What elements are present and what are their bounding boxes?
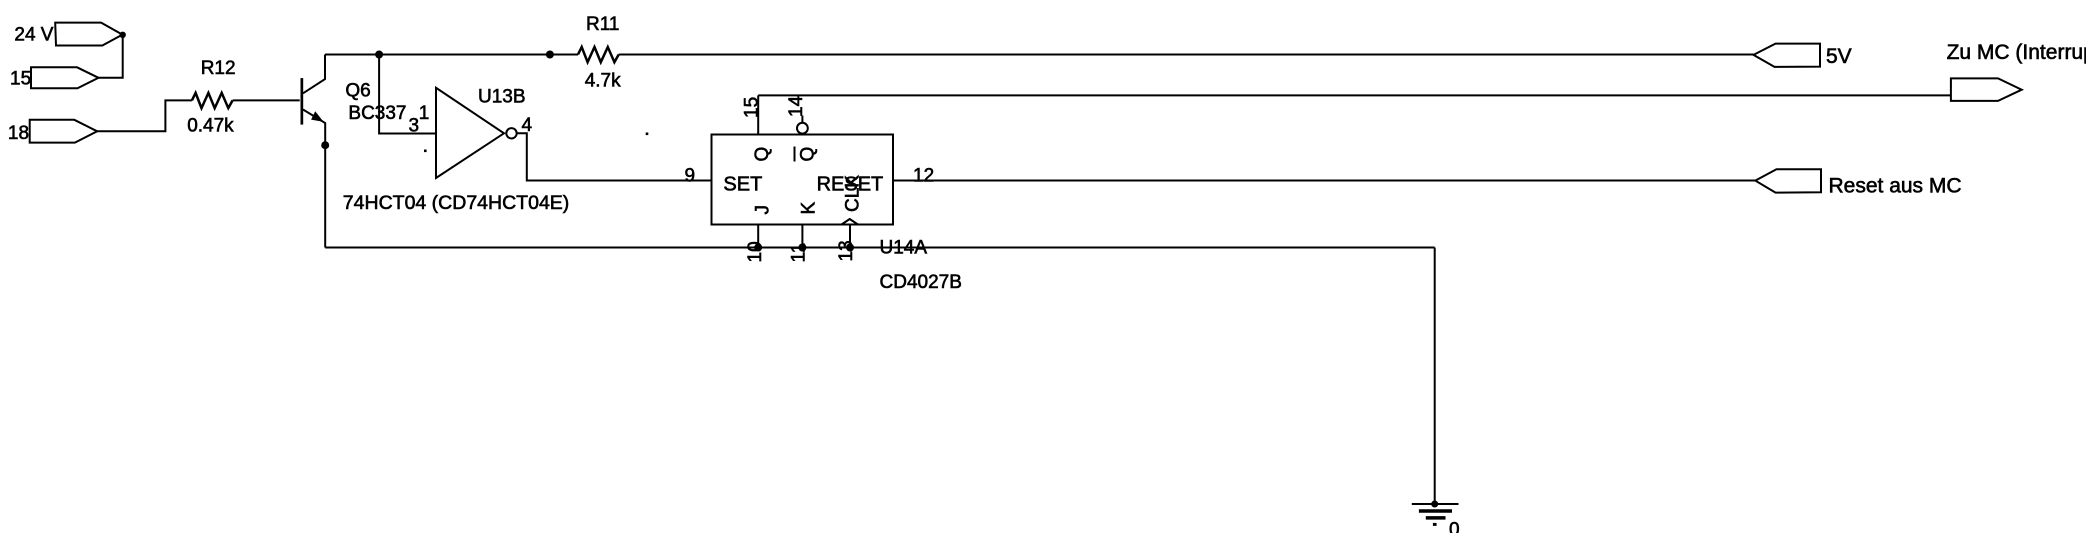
wire top rail collector to R11: [325, 54, 578, 56]
svg-text:74HCT04 (CD74HCT04E): 74HCT04 (CD74HCT04E): [343, 192, 570, 214]
wire 18 to R12: [97, 100, 192, 131]
connector 24V tag: [55, 23, 122, 46]
svg-text:12: 12: [913, 166, 934, 187]
transistor Q6 collector: [303, 55, 325, 94]
Qbar overbar: [794, 147, 796, 162]
pin number 15 rotated: [742, 97, 763, 118]
svg-text:Reset aus MC: Reset aus MC: [1829, 174, 1962, 197]
clock edge triangle: [842, 219, 858, 225]
value BC337: [348, 103, 406, 124]
svg-text:Q: Q: [752, 147, 773, 162]
ground bar 1: [1412, 503, 1459, 505]
label 18: [8, 123, 29, 144]
wire branch down to inverter input: [379, 55, 436, 134]
junction dot ground: [1431, 501, 1438, 508]
pin number 3: [409, 116, 420, 137]
pin 13 wire: [849, 225, 851, 248]
pin number 14 rotated: [786, 95, 807, 117]
svg-text:15: 15: [10, 69, 31, 90]
label R11: [586, 14, 619, 35]
svg-text:R12: R12: [201, 58, 236, 79]
ground dash: [1433, 523, 1437, 526]
pin 14 bubble: [797, 123, 808, 134]
svg-text:24 V: 24 V: [14, 24, 53, 45]
wire bottom rail down to ground: [1434, 248, 1436, 505]
pin number 10 rotated: [745, 241, 766, 262]
wire R11 to 5V tag: [619, 54, 1754, 56]
junction dot pin 11: [798, 244, 806, 252]
label Reset aus MC: [1829, 174, 1962, 197]
svg-text:5V: 5V: [1826, 45, 1852, 68]
pin number 12: [913, 166, 934, 187]
svg-text:18: 18: [8, 123, 29, 144]
label U13B: [478, 87, 526, 108]
pin 10 wire: [757, 225, 759, 248]
ground bar 2: [1419, 509, 1452, 513]
label 24 V: [14, 24, 53, 45]
svg-text:R11: R11: [586, 14, 619, 35]
pin number 4: [522, 115, 533, 136]
svg-text:9: 9: [685, 166, 696, 187]
svg-text:3: 3: [409, 116, 420, 137]
svg-text:CLK: CLK: [843, 175, 864, 212]
label Q rotated: [752, 147, 773, 162]
pin number 1: [419, 103, 430, 124]
svg-text:0.47k: 0.47k: [187, 116, 234, 137]
label K rotated: [799, 202, 820, 215]
wire 15-to-24V vertical: [99, 35, 123, 78]
connector 18 tag: [30, 120, 98, 143]
pin 12 wire to Reset tag: [893, 180, 1755, 182]
svg-text:U13B: U13B: [478, 87, 526, 108]
ground bar 3: [1426, 516, 1446, 520]
stray dot near pin 3: [424, 150, 427, 153]
pin number 11 rotated: [789, 243, 810, 263]
label SET: [723, 174, 762, 196]
label R12: [201, 58, 236, 79]
svg-text:1: 1: [419, 103, 430, 124]
svg-text:4.7k: 4.7k: [585, 70, 621, 91]
svg-text:CD4027B: CD4027B: [880, 272, 962, 293]
svg-text:15: 15: [742, 97, 763, 118]
value 0.47k: [187, 116, 234, 137]
wire inverter output to pin 9: [517, 133, 712, 180]
value CD4027B: [880, 272, 962, 293]
pin number 13 rotated: [836, 240, 857, 261]
svg-text:Q: Q: [798, 147, 819, 162]
pin 11 wire: [801, 225, 803, 248]
transistor Q2 base bar: [301, 78, 304, 125]
transistor Q6 emitter arrow: [311, 111, 324, 122]
label 5V: [1826, 45, 1852, 68]
junction dot 24V/15: [120, 32, 126, 38]
label 15: [10, 69, 31, 90]
svg-text:Zu MC (Interrup: Zu MC (Interrup: [1947, 41, 2086, 64]
svg-text:BC337: BC337: [348, 103, 406, 124]
svg-text:SET: SET: [723, 174, 762, 196]
label U14A: [880, 238, 928, 259]
value 4.7k: [585, 70, 621, 91]
label Qbar rotated: [798, 147, 819, 162]
connector Zu MC tag: [1951, 78, 2022, 101]
svg-text:0: 0: [1449, 520, 1460, 533]
label Q6: [345, 81, 370, 102]
label RESET: [817, 174, 884, 196]
junction dot pin 13: [846, 244, 854, 252]
value 74HCT04 (CD74HCT04E): [343, 192, 570, 214]
svg-text:J: J: [753, 205, 774, 215]
svg-text:U14A: U14A: [880, 238, 928, 259]
wire pin15 to Zu MC tag: [758, 94, 1951, 96]
junction dot emitter: [321, 141, 329, 149]
junction dot top rail: [546, 51, 554, 59]
label CLK rotated: [843, 175, 864, 212]
svg-text:13: 13: [836, 240, 857, 261]
op-amp U13B inverter triangle: [436, 88, 504, 178]
svg-text:K: K: [799, 202, 820, 215]
wire emitter down to bottom rail: [324, 145, 326, 247]
resistor R11: [578, 47, 619, 62]
wire bottom rail: [325, 247, 1435, 249]
svg-text:10: 10: [745, 241, 766, 262]
pin 15 wire: [757, 95, 759, 134]
svg-text:Q6: Q6: [345, 81, 370, 102]
label Zu MC (Interrup: [1947, 41, 2086, 64]
ground net label 0: [1449, 520, 1460, 533]
transistor Q6 emitter: [303, 110, 325, 146]
label J rotated: [753, 205, 774, 215]
inverter U13B output bubble: [506, 128, 516, 138]
junction dot collector top: [375, 51, 383, 59]
pin 14 stub: [801, 116, 803, 123]
pin number 9: [685, 166, 696, 187]
flip-flop U14A box: [712, 135, 894, 225]
connector 5V tag: [1754, 44, 1821, 67]
svg-text:14: 14: [786, 95, 807, 117]
connector 15 tag: [31, 67, 99, 88]
junction dot pin 10: [754, 244, 762, 252]
connector Reset aus MC tag: [1755, 169, 1821, 192]
stray dot right of inverter: [646, 133, 649, 136]
resistor R12: [192, 93, 233, 108]
wire R12 to Q6 base: [233, 99, 300, 101]
